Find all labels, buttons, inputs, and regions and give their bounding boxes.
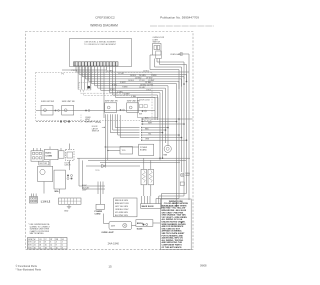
bake element label box xyxy=(141,204,162,209)
oven door light switch caption xyxy=(153,37,165,43)
wire xyxy=(141,121,177,123)
wire broil elem to lamp loop xyxy=(132,225,137,227)
wire xyxy=(160,59,187,82)
wire xyxy=(157,59,184,80)
wire xyxy=(178,81,180,198)
svg-text:P8 BLK: P8 BLK xyxy=(95,122,102,124)
legend box xyxy=(160,199,191,250)
small box left of relay xyxy=(120,147,133,155)
svg-text:L1 N L2: L1 N L2 xyxy=(41,199,51,203)
wire xyxy=(88,66,179,81)
svg-text:CFEF358DC2: CFEF358DC2 xyxy=(95,16,115,20)
svg-text:20 PNK: 20 PNK xyxy=(147,84,154,86)
wire xyxy=(88,157,190,159)
svg-text:TOD: TOD xyxy=(122,150,127,152)
wire xyxy=(82,66,184,77)
svg-text:LIGHT: LIGHT xyxy=(185,175,190,177)
svg-text:BAKE ELEM: BAKE ELEM xyxy=(142,205,154,208)
motor label box xyxy=(39,161,49,165)
oven door light switch xyxy=(153,44,162,56)
power cord plug prongs xyxy=(96,182,105,195)
info rows box xyxy=(114,198,138,217)
svg-text:Publication No. 5995447709: Publication No. 5995447709 xyxy=(160,16,199,20)
inline connector pair xyxy=(60,120,62,122)
svg-text:10: 10 xyxy=(56,248,58,250)
svg-text:6: 6 xyxy=(62,245,63,247)
wire xyxy=(85,66,181,79)
svg-text:1 BLK: 1 BLK xyxy=(146,89,152,91)
svg-text:GRY YEL 240V: GRY YEL 240V xyxy=(115,206,129,208)
svg-text:26: 26 xyxy=(34,248,36,250)
svg-text:18: 18 xyxy=(39,245,41,247)
svg-text:LT: LT xyxy=(45,239,47,241)
console dashed box xyxy=(36,73,153,121)
lamp symbol xyxy=(123,223,127,227)
wire xyxy=(183,77,185,196)
svg-text:WIRING DIAGRAM: WIRING DIAGRAM xyxy=(90,23,118,27)
svg-text:7 BRN: 7 BRN xyxy=(122,87,128,89)
svg-text:TCO: TCO xyxy=(95,170,100,172)
svg-text:40W: 40W xyxy=(111,226,115,228)
svg-text:ORN: ORN xyxy=(145,139,150,141)
wire pin drop xyxy=(80,66,82,90)
svg-text:6 VIO: 6 VIO xyxy=(110,89,115,91)
svg-text:8 YEL: 8 YEL xyxy=(112,84,117,86)
wire xyxy=(120,115,139,138)
inline connector b xyxy=(85,110,87,112)
inline connector d xyxy=(142,110,144,112)
wire transformer to motor xyxy=(49,160,51,167)
dashed drop wire xyxy=(80,115,82,124)
diode symbol xyxy=(102,164,106,167)
wire xyxy=(143,127,168,129)
broil element coil box 1 xyxy=(141,169,147,184)
svg-text:RED BLK 240V: RED BLK 240V xyxy=(115,200,129,202)
svg-text:ELEM: ELEM xyxy=(137,229,143,231)
svg-text:4: 4 xyxy=(56,242,57,244)
bottom right corner wires xyxy=(104,162,187,226)
wire xyxy=(88,159,186,161)
wire stub xyxy=(69,144,71,150)
wire xyxy=(92,66,177,84)
svg-text:CONN: CONN xyxy=(46,155,53,157)
surface unit switch 1 xyxy=(41,106,53,116)
svg-text:ORN BLU 120V: ORN BLU 120V xyxy=(115,209,129,211)
wire xyxy=(115,66,155,97)
oven cavity light xyxy=(181,173,185,177)
svg-text:18: 18 xyxy=(45,248,47,250)
wire stub xyxy=(49,147,51,150)
svg-text:SURF UNIT SW: SURF UNIT SW xyxy=(62,101,75,103)
svg-text:15: 15 xyxy=(45,245,47,247)
surface unit switch 2 xyxy=(62,106,74,116)
wire xyxy=(167,86,169,146)
power cord text block xyxy=(82,185,90,192)
svg-text:6: 6 xyxy=(50,242,51,244)
svg-text:SWITCH: SWITCH xyxy=(92,131,100,133)
wire xyxy=(76,66,189,72)
wire xyxy=(186,74,188,193)
svg-text:SW: SW xyxy=(139,114,142,116)
wire stub xyxy=(60,148,62,151)
wire pin drop xyxy=(83,66,85,90)
wire stub xyxy=(33,148,35,151)
svg-text:BLK PNK 120V: BLK PNK 120V xyxy=(115,215,129,217)
row labels xyxy=(145,117,153,140)
wire xyxy=(154,97,156,120)
EOC connector pin strip xyxy=(74,62,119,66)
wire from connector box 2 xyxy=(84,90,131,96)
svg-text:14: 14 xyxy=(50,248,52,250)
svg-text:21 GRY: 21 GRY xyxy=(118,73,125,75)
svg-text:24A-1940: 24A-1940 xyxy=(108,241,120,245)
wire xyxy=(143,134,179,136)
svg-text:SURF UNIT SW: SURF UNIT SW xyxy=(105,101,118,103)
svg-text:CORD: CORD xyxy=(95,214,101,216)
svg-text:09/08: 09/08 xyxy=(200,264,207,268)
wire xyxy=(165,88,167,143)
wire row drop to outlet 2 xyxy=(83,160,97,189)
wire fan from EOC pins to right bus xyxy=(62,66,189,118)
wire xyxy=(150,55,179,89)
wire pin drop xyxy=(86,66,88,90)
chart table xyxy=(28,238,68,250)
svg-text:22: 22 xyxy=(39,248,41,250)
grid box right of terminal xyxy=(59,198,82,204)
wire xyxy=(113,114,140,130)
wire xyxy=(98,66,166,88)
wire row left xyxy=(77,157,88,159)
wire xyxy=(157,95,159,120)
outer dashed border xyxy=(26,32,194,250)
svg-text:TO ORDER EOC REPLACEMENT: TO ORDER EOC REPLACEMENT xyxy=(84,43,117,46)
oven vent text block xyxy=(85,117,93,124)
connector dots lamp circuit xyxy=(143,224,145,226)
wire xyxy=(107,114,109,160)
wire pin drop xyxy=(77,66,79,90)
wire tod down xyxy=(69,161,71,171)
wire motor down xyxy=(43,182,45,194)
svg-text:SURF UNIT SW: SURF UNIT SW xyxy=(127,101,140,103)
mid vertical wires xyxy=(105,114,139,166)
broil element label box xyxy=(136,220,153,227)
surface unit switch 4 xyxy=(127,103,139,113)
svg-text:4 GRY: 4 GRY xyxy=(124,94,130,96)
wire labels on fan xyxy=(106,71,157,98)
svg-text:9: 9 xyxy=(56,245,57,247)
svg-text:* Non-Illustrated Parts: * Non-Illustrated Parts xyxy=(16,267,42,271)
header rule right xyxy=(150,25,214,27)
arrow from latch label xyxy=(102,126,105,128)
wire xyxy=(113,66,158,95)
wire xyxy=(95,66,168,86)
wires row mid xyxy=(88,158,190,162)
right vertical bus xyxy=(155,74,187,198)
inline connector a xyxy=(55,110,57,112)
wire xyxy=(188,54,190,200)
wire xyxy=(162,90,164,158)
wire xyxy=(143,129,166,131)
wire xyxy=(162,194,187,204)
motor with circle xyxy=(38,166,53,181)
small box xyxy=(59,151,65,158)
connector rows to right bus xyxy=(141,119,193,140)
wire xyxy=(143,139,187,141)
junction dot xyxy=(107,150,108,151)
svg-text:WATTS RATING: WATTS RATING xyxy=(30,232,44,235)
oven lamp box xyxy=(109,222,132,230)
svg-text:DOOR LOCK: DOOR LOCK xyxy=(139,100,151,102)
svg-text:GND: GND xyxy=(64,211,69,213)
wire to relay board xyxy=(105,146,138,148)
element stub wires xyxy=(144,158,151,196)
MDL tall box xyxy=(54,170,65,189)
wire stubs above strip xyxy=(31,194,36,197)
broil element coil box 2 xyxy=(148,169,154,184)
door latch text block xyxy=(92,126,100,133)
wire xyxy=(143,137,182,139)
svg-text:MOTOR: MOTOR xyxy=(40,163,48,165)
TOD clock box xyxy=(66,150,75,161)
wire pin drop xyxy=(90,66,92,90)
wire xyxy=(159,196,184,204)
svg-text:SURF UNIT SW: SURF UNIT SW xyxy=(41,101,54,103)
console interconnect wire xyxy=(36,110,155,112)
connector dots right of MDL xyxy=(67,175,69,177)
wire xyxy=(156,199,179,204)
wire xyxy=(110,66,160,93)
svg-text:ELEC: ELEC xyxy=(46,152,52,154)
svg-text:OVEN LIGHT: OVEN LIGHT xyxy=(101,232,114,234)
element pins xyxy=(142,196,151,204)
wire xyxy=(79,66,186,74)
svg-text:8: 8 xyxy=(62,248,63,250)
left terminal block xyxy=(31,151,43,161)
wire xyxy=(181,79,183,172)
wires stubs above left cluster xyxy=(34,144,89,194)
ground symbol below xyxy=(67,204,71,208)
junction dot xyxy=(105,146,106,147)
small box below light xyxy=(180,182,184,185)
svg-text:FAN: FAN xyxy=(164,153,168,156)
svg-text:BOARD: BOARD xyxy=(140,148,147,151)
svg-text:SWITCH: SWITCH xyxy=(85,121,93,123)
surface unit switch 3 xyxy=(105,103,117,113)
wire lamp circuit left drop xyxy=(104,214,110,224)
svg-text:12: 12 xyxy=(34,242,36,244)
junction dots xyxy=(142,118,144,120)
svg-text:10: 10 xyxy=(39,242,41,244)
wire xyxy=(118,114,140,135)
wire xyxy=(101,66,163,90)
svg-text:YEL: YEL xyxy=(148,133,151,135)
wire broil box right xyxy=(153,222,160,224)
wire xyxy=(141,118,193,120)
wire stub xyxy=(40,148,42,151)
diode wire xyxy=(86,165,140,167)
svg-text:SWITCH: SWITCH xyxy=(153,41,161,43)
wire xyxy=(155,59,182,87)
wire xyxy=(115,114,139,127)
door lock switch box xyxy=(138,98,159,118)
connector dashed box below pins xyxy=(79,83,91,91)
op EOC electronic oven control box xyxy=(70,39,132,67)
wire xyxy=(103,66,105,118)
wire xyxy=(176,84,178,163)
legend text block xyxy=(162,201,189,249)
svg-text:VIO GRN 240V: VIO GRN 240V xyxy=(115,212,129,214)
wire to TOD box xyxy=(108,150,120,152)
wire from connector box xyxy=(81,90,131,93)
relay board box xyxy=(139,144,154,155)
svg-text:LATCH: LATCH xyxy=(65,163,71,166)
connector wire row below console xyxy=(36,121,100,123)
wire xyxy=(62,66,107,70)
note text block xyxy=(28,223,50,235)
cooling fan motor xyxy=(164,145,171,152)
inline connector c xyxy=(120,109,122,111)
power cord box xyxy=(96,204,105,209)
wires below door switch xyxy=(150,54,189,200)
svg-text:8: 8 xyxy=(45,242,46,244)
junction dots on bus xyxy=(159,81,187,224)
wire xyxy=(104,114,106,166)
wire xyxy=(141,123,184,125)
svg-text:10 BLK: 10 BLK xyxy=(128,80,135,82)
svg-text:15: 15 xyxy=(108,265,112,269)
wire row drop to outlet xyxy=(79,158,96,186)
wire xyxy=(100,161,180,163)
svg-text:3 TAN: 3 TAN xyxy=(131,95,137,98)
bottom terminal strip xyxy=(30,197,38,204)
wire xyxy=(159,93,161,161)
svg-text:2: 2 xyxy=(62,242,63,244)
svg-text:BRN WHT 120V: BRN WHT 120V xyxy=(115,203,129,205)
wire plug vertical xyxy=(100,194,102,204)
wire mdl down xyxy=(59,189,61,194)
svg-text:9 WHT: 9 WHT xyxy=(120,82,126,84)
svg-text:120V: 120V xyxy=(82,190,87,192)
svg-text:12: 12 xyxy=(50,245,52,247)
wire bake elem to bus xyxy=(162,162,177,206)
wire stub xyxy=(36,148,38,151)
wire xyxy=(110,114,139,132)
svg-text:21: 21 xyxy=(34,245,36,247)
transformer block xyxy=(45,149,59,159)
wire xyxy=(143,132,163,134)
svg-text:OF THIS APPLIANCE.: OF THIS APPLIANCE. xyxy=(162,246,183,249)
svg-text:RT: RT xyxy=(50,239,52,241)
wire lamp to bus xyxy=(183,53,189,55)
svg-text:19 YEL: 19 YEL xyxy=(146,78,152,80)
